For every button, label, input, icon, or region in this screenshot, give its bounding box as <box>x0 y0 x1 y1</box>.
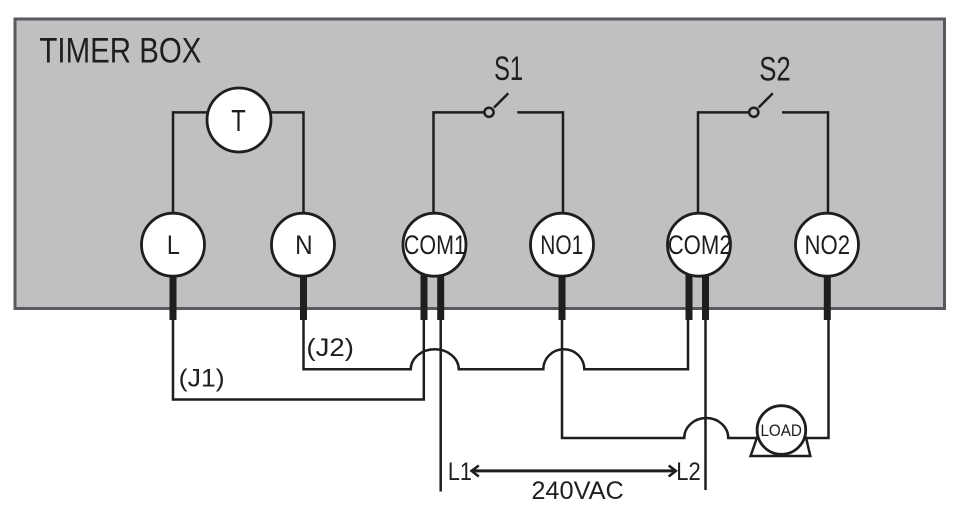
svg-text:LOAD: LOAD <box>760 421 802 440</box>
switch S1 blade <box>494 93 508 107</box>
svg-text:NO2: NO2 <box>805 230 851 260</box>
timer box enclosure <box>15 19 945 309</box>
wire S2 right (NO2 up) <box>782 112 828 215</box>
svg-text:L: L <box>167 230 180 260</box>
svg-text:(J2): (J2) <box>306 334 354 362</box>
switch S2 blade <box>759 93 773 107</box>
switch S2 pivot <box>749 108 758 117</box>
switch S1 pivot <box>484 108 493 117</box>
terminal stub N <box>300 270 307 320</box>
terminal stub NO1 <box>559 270 566 320</box>
svg-text:L2: L2 <box>676 458 701 486</box>
terminal stub COM2 left <box>686 270 693 320</box>
wire L2 drop (COM2 right stub down) <box>704 316 707 490</box>
timer T <box>207 88 271 152</box>
terminal NO1 <box>531 213 594 276</box>
terminal COM1 <box>403 213 466 276</box>
svg-text:S1: S1 <box>494 50 523 88</box>
terminal stub L <box>170 270 177 320</box>
svg-text:COM1: COM1 <box>404 230 466 260</box>
240VAC dimension arrow <box>472 466 677 477</box>
svg-text:N: N <box>295 230 313 260</box>
terminal L <box>142 213 205 276</box>
terminal N <box>272 213 335 276</box>
terminal stub COM2 right <box>702 270 709 320</box>
wire S1 right (NO1 up) <box>517 112 563 215</box>
wire jumper J2 (N to COM2) with crossover humps <box>304 316 689 369</box>
wire S1 left (COM1 up) <box>434 112 485 215</box>
svg-text:T: T <box>231 103 246 138</box>
svg-text:S2: S2 <box>759 51 791 89</box>
load mount trapezoid <box>751 438 811 457</box>
svg-text:(J1): (J1) <box>179 365 225 393</box>
svg-text:L1: L1 <box>448 458 472 486</box>
terminal stub NO2 <box>824 270 831 320</box>
svg-text:NO1: NO1 <box>540 230 583 260</box>
terminal COM2 <box>668 213 732 276</box>
wire L-T-N loop <box>173 112 304 215</box>
wire L1 drop (COM1 right stub down) <box>439 316 442 492</box>
wire jumper J1 (L to COM1) <box>173 316 424 400</box>
terminal stub COM1 right <box>437 270 444 320</box>
terminal NO2 <box>796 213 859 276</box>
wire S2 left (COM2 up) <box>698 112 749 215</box>
svg-text:240VAC: 240VAC <box>531 477 624 505</box>
terminal stub COM1 left <box>421 270 428 320</box>
wire NO1 to LOAD to NO2 with crossover hump <box>562 316 829 438</box>
svg-text:TIMER BOX: TIMER BOX <box>39 32 201 71</box>
load circle <box>757 406 806 455</box>
svg-text:COM2: COM2 <box>668 230 732 260</box>
